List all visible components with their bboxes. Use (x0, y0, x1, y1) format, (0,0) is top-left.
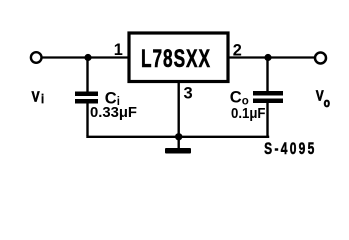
op-amp U1: regulator box (129, 33, 228, 82)
wire: pin 3 down to ground rail (177, 82, 179, 138)
capacitor Co (253, 91, 283, 103)
svg-text:1: 1 (114, 41, 123, 59)
capacitor Ci (75, 92, 98, 104)
svg-text:S-4095: S-4095 (264, 141, 316, 159)
wire: Co down to ground rail (266, 103, 268, 137)
node: output junction (264, 54, 271, 61)
wire: input node down to Ci (86, 58, 88, 93)
wire: pin 2 to output terminal (228, 56, 315, 58)
svg-text:0.33μF: 0.33μF (90, 105, 137, 121)
wire: output node down to Co (266, 58, 268, 93)
node: ground junction (175, 133, 182, 140)
output terminal (Vo) (315, 53, 326, 64)
node: input junction (84, 54, 91, 61)
svg-text:L78SXX: L78SXX (141, 45, 211, 73)
ground (165, 137, 191, 154)
svg-text:0.1μF: 0.1μF (231, 106, 266, 122)
wire: Ci down to ground rail (86, 103, 88, 136)
svg-text:3: 3 (184, 85, 193, 103)
input terminal (Vi) (31, 52, 42, 63)
wire: ground rail (86, 136, 269, 138)
wire: input terminal to pin 1 (42, 56, 130, 58)
